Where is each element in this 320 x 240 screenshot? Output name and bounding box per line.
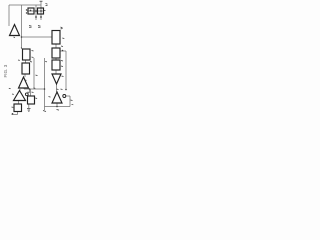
- op-amp triangle right-bottom: [52, 92, 62, 103]
- label tick boxB right: [44, 10, 46, 12]
- resistor box B: [38, 8, 44, 14]
- wire cluster horizontal: [27, 10, 44, 12]
- label speck boxL1 right a: [32, 50, 34, 53]
- wire box1 out: [55, 44, 57, 48]
- wire box mid-bottom down: [28, 104, 30, 108]
- junction dot: [29, 88, 31, 90]
- junction dot: [65, 89, 67, 91]
- speck below tri1: [14, 36, 16, 39]
- op-amp triangle left-bottom: [14, 91, 26, 101]
- wire box3 out: [55, 70, 57, 74]
- speck label above tri right: [57, 88, 63, 91]
- speck label below rail: [57, 109, 60, 112]
- wire bottom rail: [45, 106, 71, 108]
- label tick box3b: [61, 65, 63, 68]
- label tick 20: [61, 27, 63, 29]
- op-amp A1 top-left triangle: [10, 25, 20, 36]
- speck tri-mid inner: [25, 79, 27, 81]
- wire box-tri connector left: [24, 74, 26, 77]
- resistor box A: [28, 8, 34, 14]
- wire x36 drop: [35, 5, 37, 20]
- label tick boxBM right: [35, 97, 37, 100]
- wire x34 drop: [33, 58, 35, 89]
- junction dot: [40, 10, 42, 12]
- inverter bubble left: [25, 93, 28, 96]
- block box left1: [23, 49, 31, 60]
- label tick x44 top: [45, 61, 47, 63]
- label tick boxL1 corner: [21, 48, 23, 50]
- junction dot: [56, 106, 58, 108]
- speck tick rail y89: [34, 87, 36, 90]
- wire left drop: [8, 5, 10, 26]
- wire box2 right: [60, 51, 66, 90]
- wire x21 drop: [21, 5, 23, 49]
- wire tri base to rail: [23, 88, 25, 89]
- label tick box3a: [61, 60, 63, 63]
- op-amp triangle down: [52, 74, 61, 84]
- speck label boxBM above: [28, 91, 34, 94]
- junction dot: [26, 12, 27, 13]
- junction dot: [62, 50, 64, 52]
- speck tri1: [16, 27, 18, 30]
- block box bottom-left: [14, 104, 22, 112]
- terminal dot: [12, 113, 14, 115]
- wire top rail: [9, 4, 41, 6]
- label tick tridown: [62, 75, 64, 78]
- wire bubble2 tap: [29, 89, 31, 93]
- svg-text:FIG. 3: FIG. 3: [3, 64, 8, 77]
- wire bottom-left exit: [12, 112, 18, 115]
- junction dot: [21, 36, 23, 38]
- junction dot: [35, 16, 37, 18]
- wire tri2 apex up: [19, 89, 21, 91]
- inverter bubble right: [63, 95, 66, 98]
- label tick x44 bottom: [43, 111, 46, 112]
- wire bubble out: [66, 96, 70, 107]
- junction dot: [35, 10, 37, 12]
- speck left of tri2 upper: [9, 87, 11, 89]
- label speck boxL1 right b: [32, 56, 34, 59]
- label tick x70: [71, 99, 73, 102]
- ground bottom-mid: [27, 109, 31, 112]
- wire x44 drop: [44, 58, 46, 110]
- block box1: [52, 31, 60, 45]
- label speck 16: [18, 59, 20, 61]
- label tick box1 right: [62, 37, 64, 40]
- junction dot: [40, 16, 42, 18]
- speck label rail right: [72, 103, 74, 106]
- label tick boxL2: [30, 61, 32, 64]
- block box left2: [22, 63, 30, 74]
- speck label 10: [46, 4, 48, 6]
- speck label left of tri right: [49, 96, 51, 99]
- speck label boxBL left: [12, 106, 14, 108]
- speck label 12: [29, 26, 32, 28]
- speck label 14: [38, 26, 41, 28]
- speck label tri2 left: [12, 93, 14, 95]
- block box3: [52, 60, 60, 70]
- wire x41 drop: [40, 1, 42, 20]
- wire mid horizontal: [22, 36, 53, 38]
- wire box2-box3: [55, 58, 57, 60]
- wire tri base out: [56, 103, 58, 107]
- block box2: [52, 48, 60, 58]
- junction dot: [26, 9, 27, 10]
- wire tri2 to box: [18, 101, 20, 105]
- tick top arrow: [40, 0, 43, 2]
- wire box-box connector left: [25, 60, 27, 63]
- wire tri-down out: [56, 84, 58, 92]
- wire box mid-bottom up: [30, 89, 32, 96]
- junction dot: [44, 88, 46, 90]
- speck label near x34: [36, 74, 38, 77]
- block box bottom-mid: [28, 96, 35, 104]
- resistor dot inner: [30, 10, 32, 12]
- label tick box2: [61, 45, 63, 48]
- wire hline y89: [24, 88, 45, 90]
- op-amp triangle left-mid: [19, 77, 29, 88]
